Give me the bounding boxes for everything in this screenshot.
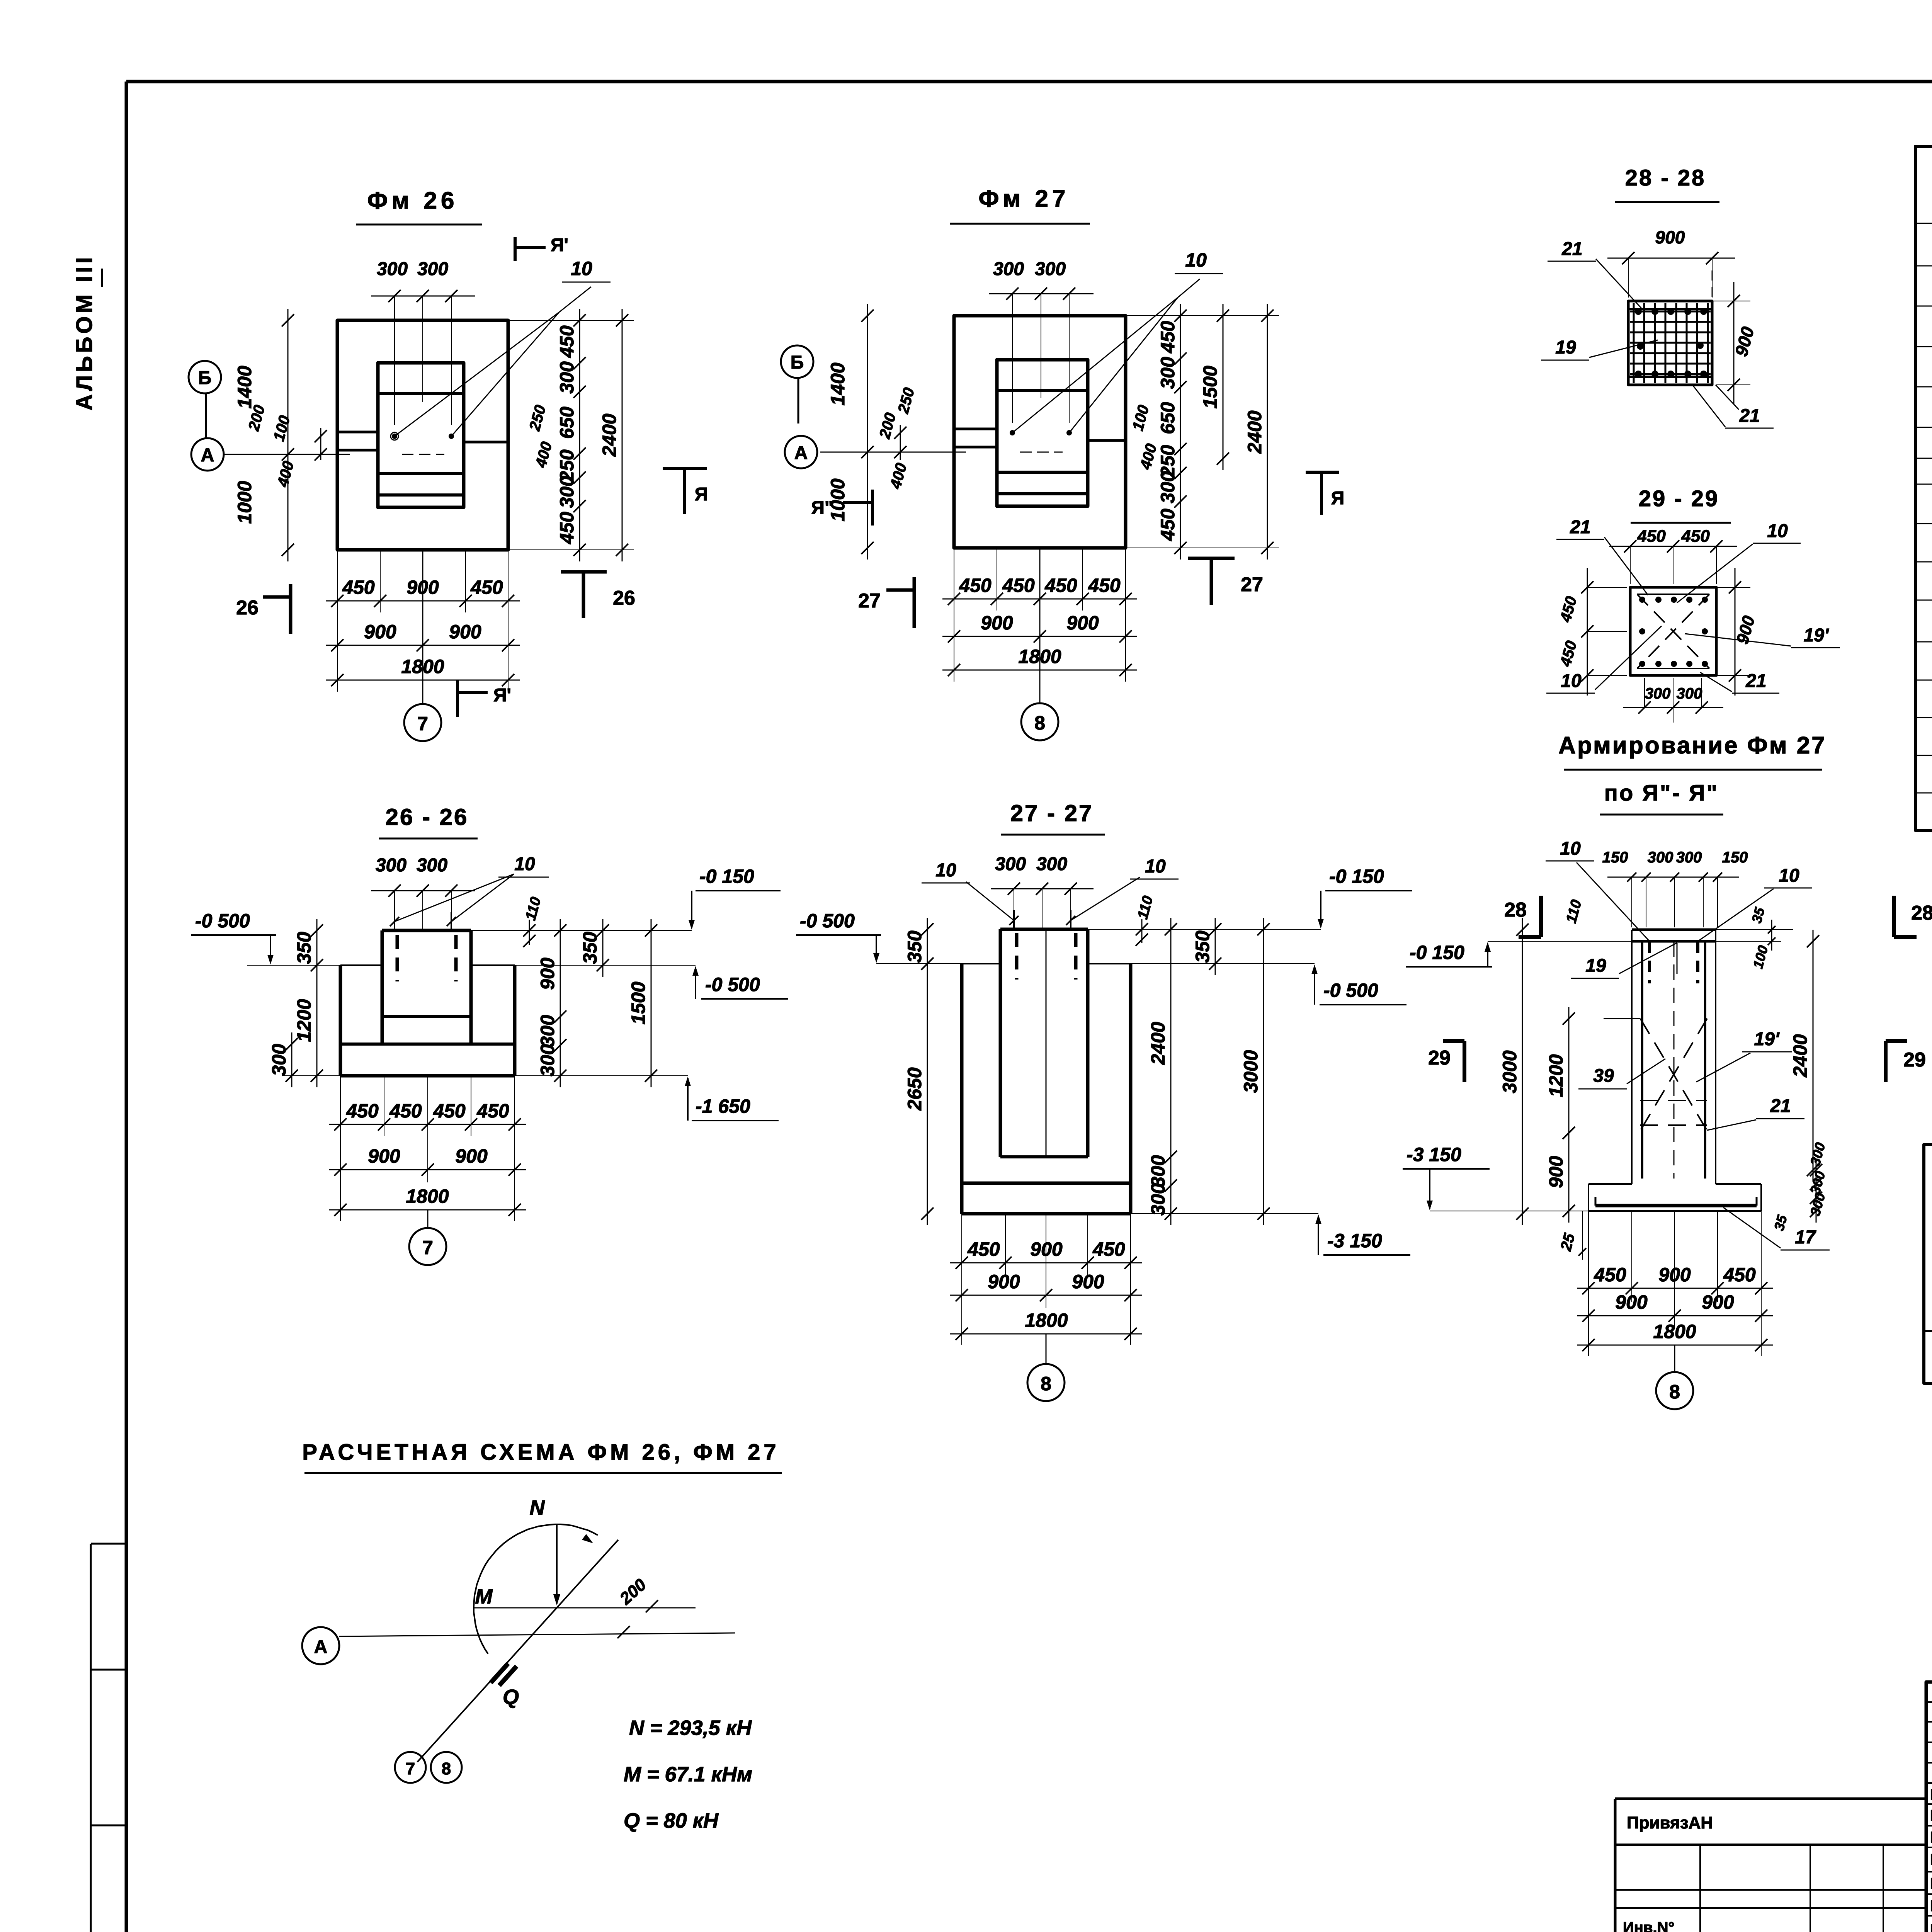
svg-text:2400: 2400 bbox=[1244, 410, 1265, 454]
svg-text:19': 19' bbox=[1804, 625, 1829, 646]
svg-text:ГИП: ГИП bbox=[1930, 1851, 1932, 1868]
svg-text:300: 300 bbox=[537, 1044, 558, 1077]
svg-text:900: 900 bbox=[1030, 1238, 1063, 1260]
svg-text:21: 21 bbox=[1745, 671, 1766, 691]
svg-text:10: 10 bbox=[1561, 671, 1582, 691]
svg-text:450: 450 bbox=[556, 512, 578, 544]
svg-text:450: 450 bbox=[470, 577, 503, 598]
svg-text:А: А bbox=[201, 445, 214, 466]
svg-text:M: M bbox=[475, 1585, 493, 1608]
svg-text:300: 300 bbox=[1036, 854, 1067, 874]
svg-text:10: 10 bbox=[1767, 521, 1788, 541]
svg-text:450: 450 bbox=[1157, 509, 1179, 541]
plan FM27 section mark Ya'' left bbox=[871, 490, 874, 526]
plan FM26 embed plates 10 bbox=[392, 434, 397, 439]
plan FM27 wall notches bbox=[954, 428, 997, 430]
armir section mark 29 right bbox=[1884, 1041, 1888, 1082]
plan FM26 right ext lines bbox=[508, 320, 634, 321]
svg-text:8: 8 bbox=[1034, 712, 1045, 734]
calc scheme moment arc M bbox=[474, 1524, 598, 1654]
plan FM26 right dim 2400 bbox=[622, 309, 623, 561]
calc scheme diagonal bbox=[417, 1540, 618, 1762]
svg-text:2400: 2400 bbox=[1147, 1022, 1169, 1065]
axis circle B (FM27) bbox=[781, 345, 813, 378]
svg-text:2400: 2400 bbox=[599, 413, 620, 457]
svg-text:1800: 1800 bbox=[1653, 1321, 1696, 1342]
svg-text:19': 19' bbox=[1754, 1029, 1780, 1049]
svg-text:Армирование Фм 27: Армирование Фм 27 bbox=[1558, 732, 1827, 759]
svg-text:900: 900 bbox=[449, 621, 481, 643]
section 27-27 right dims 2400 300 300 bbox=[1170, 918, 1172, 1225]
axis circle A (FM27) bbox=[785, 436, 817, 468]
svg-text:7: 7 bbox=[422, 1237, 433, 1259]
svg-text:150: 150 bbox=[1722, 849, 1748, 866]
svg-text:Провер.: Провер. bbox=[1930, 1786, 1932, 1803]
svg-text:10: 10 bbox=[514, 854, 535, 874]
svg-text:-0 150: -0 150 bbox=[1410, 942, 1464, 963]
svg-text:300: 300 bbox=[1157, 471, 1179, 503]
plan FM27 column bbox=[997, 360, 1088, 506]
svg-text:Рук. гр.: Рук. гр. bbox=[1930, 1829, 1932, 1846]
svg-text:900: 900 bbox=[1702, 1291, 1734, 1313]
svg-text:900: 900 bbox=[1066, 612, 1099, 634]
calc scheme axis line bbox=[339, 1633, 735, 1636]
svg-text:900: 900 bbox=[1545, 1156, 1567, 1188]
plan FM26 section mark Ya' bottom bbox=[456, 680, 459, 717]
plan FM26 section mark Ya' top bbox=[514, 237, 517, 261]
svg-text:ПривязАН: ПривязАН bbox=[1627, 1813, 1713, 1832]
armir right dims 300 300 300 bbox=[1816, 1158, 1817, 1223]
svg-text:900: 900 bbox=[1655, 227, 1685, 247]
plan FM26 section mark 26 left bbox=[289, 584, 293, 634]
section 27-27 axis circle 8 bbox=[1046, 929, 1047, 1155]
armir top embed plate band bbox=[1632, 929, 1716, 931]
svg-text:350: 350 bbox=[293, 932, 315, 964]
detail 29-29 bottom dim 300 300 bbox=[1644, 678, 1645, 707]
section 27-27 right dim 350 bbox=[1215, 918, 1216, 975]
plan FM26 axis circle 7 bbox=[422, 550, 423, 704]
svg-text:17: 17 bbox=[1795, 1227, 1816, 1248]
detail 28-28 mesh bars bbox=[1633, 303, 1635, 383]
svg-text:350: 350 bbox=[904, 930, 925, 963]
svg-text:А: А bbox=[794, 443, 808, 463]
plan FM27 right dim 2400 bbox=[1267, 304, 1268, 560]
svg-text:10: 10 bbox=[1185, 249, 1207, 271]
plan FM26 column inner lines bbox=[378, 392, 464, 395]
svg-text:Q = 80 кН: Q = 80 кН bbox=[624, 1809, 719, 1832]
sheet frame bbox=[126, 80, 1932, 83]
armir embed anchors dashed bbox=[1648, 941, 1651, 983]
svg-text:1500: 1500 bbox=[1199, 366, 1221, 408]
svg-text:300: 300 bbox=[1676, 849, 1702, 866]
svg-text:1200: 1200 bbox=[1545, 1054, 1567, 1097]
svg-text:300: 300 bbox=[1147, 1183, 1169, 1216]
section 26-26 right dims 900 300 300 bbox=[560, 919, 561, 1087]
svg-text:300: 300 bbox=[1677, 685, 1702, 702]
attach table bbox=[1615, 1798, 1926, 1800]
section 26-26 right dim 350 bbox=[602, 919, 604, 977]
svg-text:Я: Я bbox=[695, 484, 708, 505]
plan FM26 A axis line bbox=[224, 454, 350, 455]
svg-text:650: 650 bbox=[556, 406, 578, 439]
plan FM27 embed plates 10 bbox=[1010, 430, 1015, 435]
svg-text:450: 450 bbox=[967, 1238, 1000, 1260]
svg-text:450: 450 bbox=[1044, 575, 1077, 596]
plan FM27 right dim 1500 bbox=[1223, 304, 1224, 470]
svg-text:27: 27 bbox=[858, 590, 881, 612]
svg-text:350: 350 bbox=[1192, 930, 1213, 963]
svg-text:Я": Я" bbox=[811, 498, 833, 518]
svg-text:26 - 26: 26 - 26 bbox=[386, 804, 469, 830]
svg-text:450: 450 bbox=[556, 325, 578, 358]
plan FM26 section mark Ya right bbox=[663, 467, 707, 470]
armir footing bbox=[1588, 1183, 1632, 1185]
svg-text:900: 900 bbox=[537, 957, 558, 990]
axis circle B (FM26) bbox=[189, 361, 221, 393]
armir section mark 28 right bbox=[1892, 896, 1896, 937]
svg-text:А: А bbox=[314, 1637, 328, 1657]
plan FM26 small dims 200 100 400 bbox=[320, 428, 321, 460]
calc scheme force N arrow bbox=[556, 1524, 558, 1604]
armir mesh dashes 21 bbox=[1640, 1100, 1707, 1101]
detail 28-28 top dim 900 bbox=[1628, 258, 1629, 298]
armir section mark 29 left bbox=[1463, 1041, 1466, 1082]
svg-text:Б: Б bbox=[791, 352, 804, 373]
svg-text:900: 900 bbox=[455, 1145, 488, 1167]
svg-text:450: 450 bbox=[389, 1100, 422, 1122]
svg-text:29: 29 bbox=[1428, 1047, 1451, 1069]
svg-text:Инв.N°: Инв.N° bbox=[1623, 1919, 1675, 1932]
svg-text:450: 450 bbox=[1088, 575, 1121, 596]
plan FM27 section mark 27 left bbox=[913, 577, 916, 628]
svg-text:300: 300 bbox=[1157, 357, 1179, 389]
svg-text:10: 10 bbox=[935, 860, 956, 881]
svg-text:450: 450 bbox=[346, 1100, 379, 1122]
plan FM27 small dims bbox=[900, 425, 901, 460]
svg-text:1800: 1800 bbox=[1025, 1310, 1068, 1331]
svg-text:300: 300 bbox=[1645, 685, 1671, 702]
svg-text:10: 10 bbox=[1145, 856, 1166, 877]
plan FM27 leader to 10 bbox=[1012, 298, 1178, 433]
svg-text:450: 450 bbox=[1002, 575, 1035, 596]
title block outer bbox=[1926, 1682, 1932, 1932]
svg-text:Инж.: Инж. bbox=[1930, 1807, 1932, 1824]
plan FM27 right dim stack bbox=[1180, 304, 1181, 560]
left margin strip bbox=[90, 1544, 92, 1932]
svg-text:29: 29 bbox=[1903, 1049, 1926, 1071]
section 27-27 base slab bbox=[962, 1182, 1131, 1185]
armir left dims 1200 900 bbox=[1568, 1007, 1570, 1145]
svg-text:450: 450 bbox=[433, 1100, 466, 1122]
svg-text:1500: 1500 bbox=[628, 981, 649, 1024]
svg-text:21: 21 bbox=[1570, 517, 1590, 537]
svg-text:8: 8 bbox=[1669, 1381, 1680, 1403]
detail 29-29 top dim 450 450 bbox=[1630, 546, 1631, 584]
svg-text:28: 28 bbox=[1911, 902, 1932, 924]
svg-text:900: 900 bbox=[1072, 1271, 1104, 1293]
detail 29-29 left dims 450 450 bbox=[1587, 587, 1627, 588]
svg-text:300: 300 bbox=[537, 1015, 558, 1047]
detail 28-28 mesh square bbox=[1628, 301, 1712, 385]
plan FM27 section mark 27 right bbox=[1188, 557, 1235, 560]
plan FM27 axis circle 8 bbox=[1039, 548, 1041, 703]
svg-text:900: 900 bbox=[364, 621, 396, 643]
svg-text:N = 293,5 кН: N = 293,5 кН bbox=[629, 1716, 752, 1740]
svg-text:M = 67.1 кНм: M = 67.1 кНм bbox=[624, 1763, 752, 1786]
svg-text:27: 27 bbox=[1241, 573, 1263, 596]
svg-text:900: 900 bbox=[988, 1271, 1020, 1293]
svg-text:3000: 3000 bbox=[1240, 1050, 1262, 1093]
plan FM26 leader to 10 bbox=[395, 312, 559, 436]
svg-text:21: 21 bbox=[1770, 1096, 1791, 1116]
calc scheme axis circles 7 8 bbox=[395, 1752, 426, 1783]
svg-text:39: 39 bbox=[1593, 1066, 1614, 1086]
svg-text:Нач. отд.: Нач. отд. bbox=[1930, 1922, 1932, 1932]
svg-text:N: N bbox=[530, 1496, 545, 1519]
plan FM27 column inner lines bbox=[997, 389, 1088, 392]
svg-text:Я: Я bbox=[1331, 488, 1345, 509]
svg-text:Фм 26: Фм 26 bbox=[367, 187, 458, 214]
armir bottom dims bbox=[1588, 1211, 1589, 1356]
section 27-27 column bbox=[999, 929, 1002, 1157]
steel table grid bbox=[1924, 1145, 1932, 1383]
section 27-27 rebar dashes bbox=[1015, 933, 1019, 980]
section 26-26 column bbox=[381, 930, 384, 1044]
plan FM26 column bbox=[378, 363, 464, 507]
svg-text:10: 10 bbox=[1560, 838, 1581, 859]
svg-text:1000: 1000 bbox=[234, 481, 255, 524]
armir section mark 28 left bbox=[1539, 896, 1543, 937]
armir vertical bars 19 bbox=[1641, 941, 1643, 1179]
svg-text:Я': Я' bbox=[551, 235, 568, 255]
svg-text:8: 8 bbox=[442, 1759, 451, 1778]
svg-text:РАСЧЕТНАЯ СХЕМА ФМ 26, ФМ 27: РАСЧЕТНАЯ СХЕМА ФМ 26, ФМ 27 bbox=[302, 1440, 779, 1465]
svg-text:450: 450 bbox=[1681, 527, 1710, 546]
svg-text:28 - 28: 28 - 28 bbox=[1625, 165, 1706, 190]
plan FM26 bottom dims bbox=[337, 550, 338, 692]
detail 28-28 dashed edge bbox=[1712, 270, 1713, 301]
plan FM26 wall notches bbox=[337, 431, 378, 434]
section 26-26 bottom dims bbox=[340, 1076, 341, 1221]
section 26-26 rebar dashes bbox=[396, 935, 399, 981]
svg-text:7: 7 bbox=[406, 1759, 415, 1778]
svg-text:8: 8 bbox=[1041, 1373, 1051, 1395]
plan FM27 A axis line bbox=[820, 452, 966, 453]
svg-text:300: 300 bbox=[995, 854, 1026, 874]
section 27-27 right dim 3000 bbox=[1263, 918, 1264, 1225]
svg-text:450: 450 bbox=[1157, 321, 1179, 354]
svg-text:-3 150: -3 150 bbox=[1406, 1144, 1461, 1165]
svg-text:300: 300 bbox=[417, 259, 448, 279]
section 27-27 bottom dims bbox=[961, 1214, 962, 1345]
svg-text:300: 300 bbox=[377, 259, 408, 279]
section 26-26 pedestal bbox=[340, 964, 382, 966]
svg-text:300: 300 bbox=[1035, 259, 1066, 279]
svg-text:АЛЬБОМ III: АЛЬБОМ III bbox=[72, 254, 97, 411]
svg-text:450: 450 bbox=[1594, 1264, 1626, 1286]
svg-text:900: 900 bbox=[368, 1145, 400, 1167]
section 27-27 left dims 350 2650 bbox=[927, 918, 928, 975]
section 26-26 dim 110 right of column bbox=[471, 930, 553, 931]
svg-text:19: 19 bbox=[1555, 337, 1576, 358]
svg-text:300: 300 bbox=[1147, 1155, 1169, 1187]
armir top dims 150 300 300 150 bbox=[1631, 877, 1632, 927]
svg-text:26: 26 bbox=[236, 597, 259, 619]
svg-text:300: 300 bbox=[556, 361, 578, 394]
spec table grid bbox=[1915, 146, 1932, 830]
detail 29-29 X diagonals bbox=[1637, 594, 1709, 668]
armir left dim 3000 bbox=[1522, 918, 1523, 1225]
armir berm line bbox=[1604, 1018, 1640, 1019]
section 27-27 top dim 300 300 bbox=[1014, 889, 1014, 910]
svg-text:1200: 1200 bbox=[293, 999, 315, 1042]
svg-text:Я': Я' bbox=[493, 685, 511, 706]
detail 28-28 right dim 900 bbox=[1712, 301, 1750, 301]
svg-text:28: 28 bbox=[1504, 899, 1527, 921]
plan FM26 section mark 26 right bbox=[561, 570, 607, 574]
svg-text:1400: 1400 bbox=[234, 366, 255, 408]
svg-text:300: 300 bbox=[993, 259, 1024, 279]
plan FM26 left dim 1400 1000 bbox=[287, 309, 289, 561]
plan FM27 top dim 300 300 bbox=[1012, 294, 1013, 423]
svg-text:-0 150: -0 150 bbox=[1329, 866, 1384, 887]
svg-text:300: 300 bbox=[376, 855, 406, 876]
section 26-26 right dim 1500 bbox=[651, 919, 652, 1087]
plan FM26 right dim stack bbox=[579, 309, 580, 561]
detail 29-29 square bbox=[1630, 587, 1716, 675]
section 26-26 left dims 350 1200 300 bbox=[309, 965, 340, 966]
section 26-26 axis circle 7 bbox=[427, 1210, 429, 1228]
plan FM27 section mark Ya right bbox=[1306, 471, 1339, 474]
svg-text:10: 10 bbox=[571, 258, 592, 279]
svg-text:300: 300 bbox=[268, 1044, 290, 1076]
detail 29-29 bar dots bbox=[1639, 597, 1645, 603]
svg-text:900: 900 bbox=[981, 612, 1013, 634]
section 27-27 embed ticks 10 bbox=[1013, 910, 1015, 929]
plan FM27 bottom dims bbox=[954, 548, 954, 682]
svg-text:Q: Q bbox=[503, 1685, 519, 1709]
svg-text:450: 450 bbox=[1637, 527, 1666, 546]
detail 28-28 mesh dots bbox=[1635, 308, 1642, 315]
svg-text:300: 300 bbox=[417, 855, 447, 876]
axis circle A (FM26) bbox=[191, 438, 224, 471]
svg-text:2650: 2650 bbox=[904, 1067, 925, 1111]
detail 29-29 right dim 900 bbox=[1716, 587, 1750, 588]
svg-text:Гл. констр: Гл. констр bbox=[1930, 1875, 1932, 1892]
svg-text:900: 900 bbox=[1658, 1264, 1691, 1286]
armir dims 35 100 right bbox=[1716, 929, 1793, 930]
svg-text:2400: 2400 bbox=[1789, 1034, 1811, 1077]
section 27-27 pit walls bbox=[962, 963, 1000, 964]
svg-text:-0 150: -0 150 bbox=[699, 866, 754, 887]
svg-text:650: 650 bbox=[1157, 402, 1179, 434]
svg-text:29 - 29: 29 - 29 bbox=[1639, 486, 1719, 511]
svg-text:по Я"- Я": по Я"- Я" bbox=[1604, 781, 1719, 806]
svg-text:300: 300 bbox=[1648, 849, 1673, 866]
svg-text:450: 450 bbox=[1092, 1238, 1125, 1260]
svg-text:-3 150: -3 150 bbox=[1327, 1230, 1382, 1252]
svg-text:21: 21 bbox=[1561, 239, 1582, 259]
calc scheme Q mark bbox=[491, 1663, 508, 1683]
svg-text:21: 21 bbox=[1739, 406, 1760, 426]
svg-text:350: 350 bbox=[579, 932, 601, 964]
svg-text:-0 500: -0 500 bbox=[800, 910, 855, 932]
svg-text:Б: Б bbox=[198, 368, 212, 388]
svg-text:10: 10 bbox=[1779, 866, 1799, 886]
armir center dashed axis bbox=[1673, 941, 1675, 1179]
svg-text:1400: 1400 bbox=[827, 362, 849, 405]
svg-text:Фм 27: Фм 27 bbox=[979, 185, 1070, 212]
plan FM27 outer slab bbox=[954, 316, 1126, 548]
svg-text:450: 450 bbox=[342, 577, 375, 598]
svg-text:-1 650: -1 650 bbox=[696, 1095, 750, 1117]
svg-text:450: 450 bbox=[476, 1100, 509, 1122]
svg-text:300: 300 bbox=[556, 476, 578, 508]
plan FM26 top dim 300 300 bbox=[394, 296, 395, 425]
svg-text:1800: 1800 bbox=[406, 1185, 449, 1207]
armir column outline bbox=[1631, 930, 1633, 1184]
svg-text:26: 26 bbox=[613, 587, 635, 609]
svg-text:900: 900 bbox=[1615, 1291, 1648, 1313]
svg-text:3000: 3000 bbox=[1499, 1050, 1520, 1093]
svg-text:150: 150 bbox=[1602, 849, 1628, 866]
section 26-26 embed ticks 10 bbox=[394, 912, 395, 930]
armir cage X diagonals 19' bbox=[1640, 1019, 1707, 1131]
section 27-27 dim 110 right bbox=[1088, 929, 1159, 930]
plan FM26 outer slab bbox=[337, 320, 508, 550]
plan FM27 left dim 1400 1000 bbox=[867, 304, 868, 560]
section 26-26 top dim 300 300 bbox=[394, 891, 395, 912]
svg-text:-0 500: -0 500 bbox=[1323, 980, 1378, 1001]
svg-text:450: 450 bbox=[959, 575, 992, 596]
armir bottom mesh 17 bbox=[1595, 1204, 1757, 1207]
svg-text:7: 7 bbox=[417, 713, 428, 735]
calc scheme upper line bbox=[473, 1607, 696, 1609]
svg-text:-0 500: -0 500 bbox=[195, 910, 250, 932]
armir axis circle 8 bbox=[1674, 1345, 1675, 1372]
svg-text:27 - 27: 27 - 27 bbox=[1010, 800, 1094, 826]
calc scheme axis circle A bbox=[302, 1627, 339, 1664]
svg-text:Н.контр.: Н.контр. bbox=[1930, 1898, 1932, 1915]
svg-text:450: 450 bbox=[1723, 1264, 1756, 1286]
calc scheme dim 200 bbox=[646, 1600, 658, 1612]
armir right dim 2400 bbox=[1813, 930, 1814, 1182]
svg-text:19: 19 bbox=[1585, 956, 1606, 976]
svg-text:-0 500: -0 500 bbox=[705, 974, 760, 995]
